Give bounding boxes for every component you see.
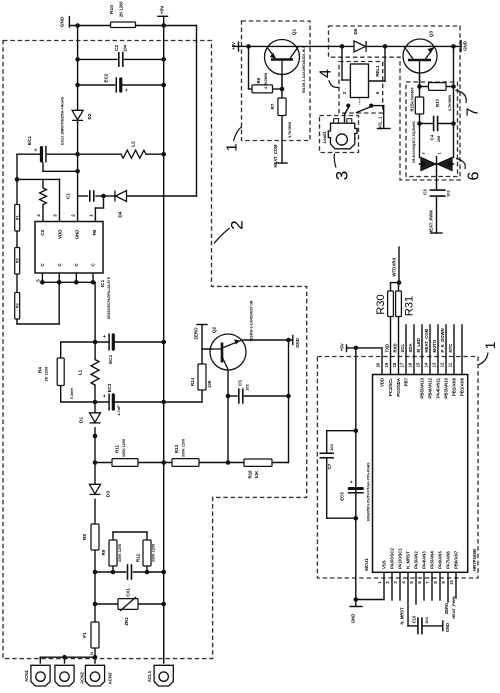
svg-text:PA4/AN3: PA4/AN3	[422, 551, 427, 569]
svg-text:VDD: VDD	[380, 378, 385, 387]
svg-text:3: 3	[333, 171, 352, 180]
svg-text:HEAT_PWM: HEAT_PWM	[428, 210, 433, 234]
svg-text:18: 18	[392, 362, 397, 367]
svg-text:ZERO: ZERO	[444, 602, 449, 614]
svg-text:104: 104	[329, 443, 334, 450]
svg-text:EC4: EC4	[108, 355, 113, 364]
svg-text:330K 1206: 330K 1206	[122, 439, 126, 457]
svg-text:R10: R10	[109, 5, 115, 14]
svg-text:R31: R31	[403, 296, 415, 316]
svg-text:PA3/AN2: PA3/AN2	[414, 551, 419, 569]
svg-text:PB5/AN13: PB5/AN13	[420, 377, 425, 398]
svg-text:HEAT_COM: HEAT_COM	[273, 144, 278, 168]
svg-text:R9: R9	[101, 549, 106, 555]
svg-text:CS: CS	[40, 229, 45, 235]
svg-text:GND: GND	[295, 338, 300, 348]
svg-text:+5V: +5V	[231, 42, 236, 50]
svg-text:Q1: Q1	[292, 28, 297, 35]
svg-text:102: 102	[244, 383, 249, 390]
svg-text:9014/W-3-1/A453/6/2Y-3B: 9014/W-3-1/A453/6/2Y-3B	[249, 300, 253, 341]
svg-text:3: 3	[421, 152, 425, 154]
svg-text:N_MRST: N_MRST	[400, 607, 405, 625]
svg-text:PB7: PB7	[404, 377, 409, 386]
svg-text:+: +	[124, 88, 130, 91]
svg-text:4.7K0806: 4.7K0806	[288, 122, 292, 138]
svg-text:PC0/SDA: PC0/SDA	[396, 378, 401, 397]
svg-text:19: 19	[384, 362, 389, 367]
svg-text:HEAT_PWM: HEAT_PWM	[451, 596, 456, 619]
svg-text:1: 1	[482, 341, 498, 349]
svg-text:D6: D6	[353, 28, 358, 34]
svg-text:VSS: VSS	[382, 560, 387, 569]
svg-text:R11: R11	[115, 445, 120, 453]
svg-text:C7: C7	[327, 463, 332, 469]
svg-text:R17: R17	[435, 98, 440, 107]
svg-text:R12: R12	[136, 553, 141, 562]
svg-text:2: 2	[228, 220, 247, 229]
svg-text:4.7uF: 4.7uF	[116, 405, 121, 416]
svg-text:SCL: SCL	[400, 344, 405, 353]
svg-text:SDA: SDA	[408, 343, 413, 352]
svg-text:ACN3: ACN3	[108, 672, 113, 685]
svg-text:102: 102	[445, 189, 450, 196]
svg-text:VDD: VDD	[58, 230, 63, 239]
svg-text:0.3mH: 0.3mH	[70, 388, 74, 399]
svg-text:13: 13	[431, 362, 436, 367]
svg-text:C: C	[57, 263, 62, 267]
svg-text:C3: C3	[423, 189, 428, 195]
svg-text:14: 14	[423, 362, 428, 367]
svg-text:C4: C4	[430, 134, 435, 140]
svg-text:100uF/50% 6V/6%7/7mm-Y6%-RoHS: 100uF/50% 6V/6%7/7mm-Y6%-RoHS	[367, 462, 371, 522]
svg-text:+: +	[349, 480, 355, 483]
svg-text:D1: D1	[79, 417, 84, 423]
svg-text:+: +	[102, 335, 108, 338]
svg-text:PB3/AN10: PB3/AN10	[444, 377, 449, 398]
svg-text:C2: C2	[114, 45, 119, 51]
svg-text:GND: GND	[59, 16, 65, 27]
svg-text:EC5: EC5	[340, 492, 345, 501]
svg-text:HEAT_COM: HEAT_COM	[424, 328, 429, 352]
svg-text:PA1/OSC1: PA1/OSC1	[398, 548, 403, 569]
svg-text:ACN2: ACN2	[80, 671, 85, 684]
svg-text:D2: D2	[87, 113, 92, 119]
svg-text:P_K_DOWN: P_K_DOWN	[440, 328, 445, 352]
svg-text:TXD: TXD	[385, 344, 390, 353]
svg-text:D3: D3	[106, 491, 111, 497]
svg-text:4.7K0806: 4.7K0806	[264, 73, 268, 89]
svg-text:+: +	[34, 148, 40, 151]
svg-text:330K 1206: 330K 1206	[151, 544, 155, 562]
svg-text:GND: GND	[462, 41, 467, 51]
svg-text:4.7K0806: 4.7K0806	[448, 95, 452, 111]
svg-text:Q3: Q3	[429, 30, 434, 37]
svg-text:HR7P169B: HR7P169B	[472, 549, 477, 571]
svg-text:C10: C10	[411, 615, 416, 623]
svg-text:6: 6	[465, 171, 482, 180]
svg-text:GND: GND	[75, 230, 80, 240]
svg-text:R7: R7	[270, 103, 275, 109]
svg-text:M_LED: M_LED	[416, 338, 421, 353]
svg-text:ZERO: ZERO	[194, 327, 199, 340]
svg-text:MOTO: MOTO	[432, 339, 437, 352]
svg-text:12: 12	[439, 362, 444, 367]
svg-text:R13: R13	[174, 444, 179, 453]
svg-text:R15: R15	[409, 103, 414, 112]
svg-text:EC2: EC2	[103, 73, 108, 82]
svg-text:PA7/AN6: PA7/AN6	[446, 551, 451, 569]
svg-text:R2: R2	[16, 258, 20, 263]
svg-text:REL1: REL1	[375, 65, 380, 77]
svg-text:9013H-3-1/2A3/9014/2D1-H/J: 9013H-3-1/2A3/9014/2D1-H/J	[302, 47, 306, 93]
svg-text:ACN1: ACN1	[24, 669, 29, 682]
svg-text:L1: L1	[78, 369, 83, 375]
svg-text:GND: GND	[445, 623, 450, 632]
svg-text:NTC: NTC	[448, 344, 453, 353]
svg-text:20: 20	[375, 362, 380, 367]
svg-text:MCU1: MCU1	[364, 558, 369, 571]
svg-text:ZR1: ZR1	[124, 617, 129, 626]
svg-text:4.7K0806: 4.7K0806	[411, 87, 415, 103]
svg-text:15: 15	[415, 362, 420, 367]
svg-text:ACL1: ACL1	[147, 670, 152, 682]
svg-text:WTDXRX: WTDXRX	[392, 257, 397, 276]
svg-text:11: 11	[447, 362, 452, 367]
svg-text:10K: 10K	[207, 380, 212, 388]
svg-text:EC1: EC1	[27, 136, 32, 145]
svg-text:7: 7	[464, 107, 481, 116]
svg-text:F1: F1	[82, 632, 87, 638]
svg-text:R8: R8	[82, 534, 87, 540]
svg-text:PB2/AN9: PB2/AN9	[452, 377, 457, 396]
svg-text:Q2: Q2	[212, 326, 217, 333]
svg-text:17: 17	[399, 362, 404, 367]
svg-text:PB4/AN12: PB4/AN12	[428, 377, 433, 398]
svg-text:+5V: +5V	[160, 5, 166, 15]
svg-text:FB: FB	[92, 230, 97, 236]
svg-text:ACL_1: ACL_1	[378, 116, 383, 130]
svg-text:RXD: RXD	[393, 343, 398, 352]
svg-text:1: 1	[437, 152, 441, 154]
svg-text:PA6/AN5: PA6/AN5	[438, 551, 443, 569]
svg-text:R18: R18	[248, 470, 253, 479]
svg-text:PB0/AN7: PB0/AN7	[454, 550, 459, 569]
svg-text:2K 1206: 2K 1206	[43, 366, 48, 382]
svg-text:+5V: +5V	[339, 343, 344, 351]
svg-text:D8 9/A/V6A(3C7-33)-RoHS: D8 9/A/V6A(3C7-33)-RoHS	[412, 121, 416, 163]
svg-text:4: 4	[317, 69, 334, 78]
svg-text:GND: GND	[350, 614, 355, 624]
svg-text:ES1J 1/M007/6/2/6A-I-RoHS: ES1J 1/M007/6/2/6A-I-RoHS	[60, 96, 64, 144]
svg-text:+: +	[102, 394, 108, 397]
svg-text:R6: R6	[256, 77, 261, 83]
svg-text:IC1: IC1	[100, 279, 105, 287]
svg-text:R3: R3	[16, 303, 20, 308]
svg-text:10: 10	[449, 580, 454, 585]
svg-text:330K 1206: 330K 1206	[118, 544, 122, 562]
svg-text:N: N	[89, 652, 94, 655]
svg-text:1: 1	[223, 143, 240, 151]
svg-text:N_MRST: N_MRST	[406, 551, 411, 569]
svg-text:104: 104	[122, 44, 127, 52]
svg-text:R1: R1	[16, 215, 20, 220]
svg-text:C5: C5	[238, 380, 243, 386]
svg-text:PA0/OSC2: PA0/OSC2	[390, 548, 395, 569]
svg-text:Load1: Load1	[322, 130, 327, 143]
svg-text:C1: C1	[66, 193, 71, 199]
svg-text:PC1/SCL: PC1/SCL	[388, 378, 393, 396]
svg-text:104: 104	[424, 616, 429, 623]
svg-text:51K: 51K	[254, 471, 259, 479]
svg-text:D4: D4	[118, 211, 123, 217]
svg-text:R4: R4	[38, 367, 43, 373]
svg-text:CX1: CX1	[126, 588, 131, 597]
svg-text:R14: R14	[190, 377, 195, 386]
svg-text:106: 106	[436, 135, 441, 142]
svg-text:2K 1206: 2K 1206	[118, 1, 123, 17]
svg-text:L2: L2	[131, 141, 136, 147]
svg-text:OB2222ECPA/DPA-/JA-R+R: OB2222ECPA/DPA-/JA-R+R	[107, 276, 111, 319]
svg-text:PA5/AN4: PA5/AN4	[430, 551, 435, 569]
svg-text:PA4/AN11: PA4/AN11	[436, 377, 441, 398]
svg-text:PB1/AN8: PB1/AN8	[460, 377, 465, 396]
svg-text:R30: R30	[375, 294, 387, 314]
svg-text:EC3: EC3	[107, 383, 112, 392]
svg-text:16: 16	[407, 362, 412, 367]
svg-text:330K 1206: 330K 1206	[181, 439, 185, 457]
